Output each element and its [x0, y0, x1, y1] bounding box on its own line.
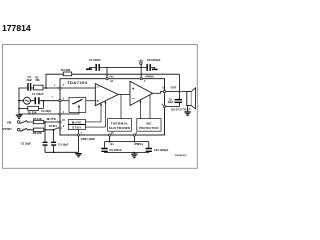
capacitor C8	[147, 64, 150, 71]
svg-text:C1 470nF: C1 470nF	[32, 92, 44, 96]
ground C8	[152, 68, 158, 70]
ground speaker	[184, 112, 190, 115]
switch S1 mute	[17, 121, 28, 124]
wire stby block out arrow	[85, 103, 105, 128]
wire mute row	[27, 122, 60, 142]
svg-text:C8 1000µF: C8 1000µF	[147, 58, 161, 62]
wire A2 out to pin14	[153, 92, 165, 94]
capacitor C4	[51, 142, 56, 145]
wire pin2 to amp	[60, 87, 95, 89]
wire minus supply rail	[105, 135, 149, 142]
thermal shutdown block	[108, 119, 132, 132]
svg-text:STBY: STBY	[49, 124, 58, 128]
wire speaker ground leg	[187, 106, 189, 112]
svg-text:C9 100nF: C9 100nF	[109, 148, 122, 152]
capacitor C1	[35, 97, 39, 104]
amp triangle A2 power	[130, 81, 153, 105]
wire output row	[165, 91, 187, 93]
pin 3	[59, 100, 61, 102]
svg-text:VM: VM	[7, 120, 12, 124]
wire C9 legs	[104, 142, 106, 153]
wire cap C3 C4 bottoms to ground rail	[45, 136, 79, 152]
wire stby block to pin1	[78, 130, 80, 135]
svg-text:R5 10K: R5 10K	[33, 117, 42, 121]
capacitor C9	[101, 149, 107, 152]
switch S2 stby	[17, 128, 28, 131]
svg-text:MUTE: MUTE	[72, 120, 82, 124]
svg-text:R6 22K: R6 22K	[33, 131, 42, 135]
pin 9	[59, 127, 61, 129]
capacitor C5 bootstrap	[175, 100, 182, 103]
svg-text:PROTECTION: PROTECTION	[139, 126, 159, 130]
capacitor C3	[43, 142, 48, 145]
wire mute block out arrow	[85, 105, 101, 122]
wire ground rail to pin4	[19, 113, 60, 115]
ground C7	[86, 68, 92, 70]
wire C7 ground leg	[89, 67, 95, 68]
svg-text:R4 22K: R4 22K	[61, 68, 70, 72]
pin 13	[106, 78, 108, 80]
loudspeaker LS1	[187, 88, 196, 109]
wire C10 legs	[148, 142, 150, 153]
svg-text:S/C: S/C	[146, 121, 152, 125]
wire sc sense arrow	[141, 95, 151, 119]
amp triangle A1	[95, 84, 118, 106]
node plus Vs terminal	[140, 62, 142, 64]
wire plus supply rail	[100, 64, 147, 78]
pin 14	[163, 91, 165, 93]
svg-text:TDA7294: TDA7294	[67, 80, 88, 85]
pin 1	[77, 134, 79, 136]
wire pin4 internal	[60, 113, 79, 115]
svg-text:SHUTDOWN: SHUTDOWN	[109, 126, 131, 130]
pin 2	[59, 87, 61, 89]
junction dots	[18, 67, 180, 154]
svg-text:-PWVs: -PWVs	[134, 142, 144, 146]
wire feedback top	[46, 74, 179, 91]
capacitor C7	[96, 64, 99, 71]
svg-text:THERMAL: THERMAL	[111, 121, 129, 125]
resistor R2	[34, 85, 43, 90]
ground minus rail	[131, 154, 137, 157]
svg-text:R1 22K: R1 22K	[28, 110, 37, 114]
svg-text:C7 100nF: C7 100nF	[89, 58, 101, 62]
pin 8	[133, 134, 135, 136]
svg-text:STBY-GND: STBY-GND	[81, 137, 95, 141]
wire bottom ground rail	[105, 153, 149, 154]
pin 4	[59, 113, 61, 115]
resistor R1	[28, 106, 39, 110]
wire interstage	[118, 94, 130, 96]
wire stby row	[27, 128, 60, 142]
svg-text:22µF: 22µF	[26, 79, 32, 82]
pin 7	[140, 78, 142, 80]
svg-text:C4 10µF: C4 10µF	[58, 142, 68, 146]
capacitor C10	[146, 149, 152, 152]
svg-text:680: 680	[36, 79, 41, 82]
source V1	[24, 97, 31, 104]
pin 15	[109, 134, 111, 136]
svg-text:C3 10µF: C3 10µF	[21, 141, 31, 145]
svg-text:177814: 177814	[2, 23, 31, 33]
ground input	[16, 115, 22, 118]
svg-text:-Vs: -Vs	[109, 142, 114, 146]
wire R1 legs	[19, 101, 44, 109]
capacitor C2	[28, 83, 31, 91]
svg-text:200358-011: 200358-011	[175, 155, 187, 157]
wire pin2 row	[19, 88, 60, 114]
svg-text:Ps=30(1): Ps=30(1)	[41, 110, 51, 113]
wire C8 ground leg	[151, 67, 155, 68]
pin 6	[163, 105, 165, 107]
wire input source row	[19, 100, 60, 102]
svg-text:+PWVs: +PWVs	[145, 74, 155, 78]
svg-text:MUTE: MUTE	[47, 117, 56, 121]
resistor R4	[63, 72, 71, 76]
wire pin3 to switch box	[60, 100, 95, 102]
svg-text:C10 1000µF: C10 1000µF	[154, 148, 169, 152]
ground stby-gnd	[75, 154, 81, 157]
svg-text:22µF: 22µF	[168, 101, 174, 104]
border frame	[3, 45, 198, 169]
op-amp IC1 TDA7294 box	[60, 79, 165, 135]
svg-text:+Vs: +Vs	[109, 74, 114, 78]
stby block	[68, 125, 85, 130]
svg-text:STBY: STBY	[72, 126, 82, 130]
mute block	[68, 119, 85, 124]
svg-text:+Vs: +Vs	[138, 59, 143, 63]
svg-text:VSTBY: VSTBY	[2, 127, 12, 131]
resistor R6	[33, 128, 43, 131]
resistor R5	[33, 120, 43, 123]
svg-text:OUT: OUT	[171, 86, 177, 90]
sc protection block	[137, 119, 161, 132]
mute switch box internal	[69, 98, 86, 113]
svg-text:BOOTSTRAP: BOOTSTRAP	[171, 109, 191, 112]
wire bootstrap cap	[165, 92, 180, 107]
pin 10	[59, 121, 61, 123]
wire thermal sense	[120, 95, 122, 119]
